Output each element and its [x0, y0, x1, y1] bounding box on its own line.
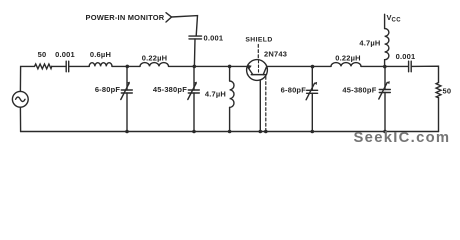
svg-text:4.7µH: 4.7µH	[205, 90, 226, 99]
variable capacitor 45-380pF (left)	[188, 66, 200, 131]
svg-text:4.7µH: 4.7µH	[359, 39, 380, 48]
label 6-80pF left	[95, 85, 121, 94]
SHIELD label	[245, 37, 272, 44]
svg-text:SeekIC.com: SeekIC.com	[354, 130, 451, 146]
wire	[69, 65, 89, 67]
resistor 50 (output load, vertical)	[436, 83, 441, 98]
svg-text:6-80pF: 6-80pF	[95, 85, 121, 94]
svg-text:45-380pF: 45-380pF	[153, 85, 187, 94]
svg-text:0.22µH: 0.22µH	[142, 53, 168, 62]
variable capacitor 6-80pF (left)	[121, 66, 133, 131]
svg-text:0.6µH: 0.6µH	[90, 50, 111, 59]
svg-text:45-380pF: 45-380pF	[342, 86, 376, 95]
wire rail corner to source top	[20, 66, 34, 91]
label 0.6uH	[90, 50, 111, 59]
bottom node junctions	[125, 130, 129, 134]
wire source bottom to bottom rail	[19, 107, 21, 131]
node junction B	[193, 65, 197, 69]
node junction A	[126, 65, 130, 69]
inductor 0.6uH	[89, 63, 112, 67]
wire collector to output network	[267, 65, 331, 67]
svg-text:POWER-IN MONITOR: POWER-IN MONITOR	[86, 13, 165, 22]
svg-text:6-80pF: 6-80pF	[281, 86, 307, 95]
watermark SeekIC.com	[354, 130, 451, 146]
svg-text:50: 50	[38, 50, 47, 59]
label 2N743	[264, 50, 287, 59]
resistor 50 (input termination)	[35, 64, 52, 69]
label 0.001 output	[396, 52, 416, 61]
wire to transistor emitter	[169, 65, 248, 67]
wire to right corner	[411, 66, 438, 82]
label 50 input	[38, 50, 47, 59]
wire monitor arrow to corner and down to cap	[172, 16, 198, 36]
label 4.7uH emitter choke	[205, 90, 226, 99]
capacitor 0.001 output coupling	[409, 61, 412, 72]
AC source generator	[12, 91, 28, 107]
wire monitor cap to rail junction	[193, 39, 196, 67]
label 50 output	[443, 87, 452, 96]
svg-text:0.001: 0.001	[55, 50, 75, 59]
label 4.7uH collector choke	[359, 39, 380, 48]
label 0.22uH left	[142, 53, 168, 62]
label 45-380pF right	[342, 86, 376, 95]
wire load resistor to bottom rail	[438, 98, 440, 132]
svg-text:50: 50	[443, 87, 452, 96]
svg-text:0.001: 0.001	[396, 52, 416, 61]
wire	[112, 65, 140, 67]
wire transistor base to bottom rail	[259, 80, 261, 132]
label 0.001 input	[55, 50, 75, 59]
node junction C	[228, 65, 232, 69]
label 0.22uH right	[335, 54, 361, 63]
svg-text:VCC: VCC	[387, 13, 402, 23]
wire	[52, 65, 66, 67]
power-in monitor chevron arrow	[166, 13, 172, 22]
svg-text:0.001: 0.001	[204, 33, 224, 42]
capacitor 0.001 series input	[66, 61, 69, 72]
node junction E	[383, 65, 387, 69]
bottom ground rail wire	[21, 131, 439, 133]
transistor Q1 2N743	[247, 60, 268, 81]
svg-text:SHIELD: SHIELD	[245, 37, 272, 44]
inductor 4.7uH (emitter choke, vertical)	[230, 66, 234, 131]
shield dashed line through transistor	[258, 61, 260, 74]
Vcc supply label	[387, 13, 402, 23]
label 6-80pF right	[281, 86, 307, 95]
node junction D	[311, 65, 315, 69]
wire Vcc stub	[384, 14, 386, 28]
variable capacitor 45-380pF (right)	[379, 66, 391, 131]
inductor 0.22uH (left)	[140, 63, 169, 67]
inductor 0.22uH (right)	[331, 63, 361, 67]
label 0.001 monitor	[204, 33, 224, 42]
capacitor 0.001 monitor coupling	[189, 36, 202, 39]
svg-text:0.22µH: 0.22µH	[335, 54, 361, 63]
shield dashed line below transistor to ground	[265, 77, 267, 132]
POWER-IN MONITOR label	[86, 13, 165, 22]
inductor 4.7uH (collector choke, vertical)	[385, 28, 389, 66]
wire	[361, 65, 408, 67]
variable capacitor 6-80pF (right)	[306, 66, 318, 131]
shield dashed line above transistor	[257, 45, 259, 60]
label 45-380pF left	[153, 85, 187, 94]
svg-text:2N743: 2N743	[264, 50, 287, 59]
